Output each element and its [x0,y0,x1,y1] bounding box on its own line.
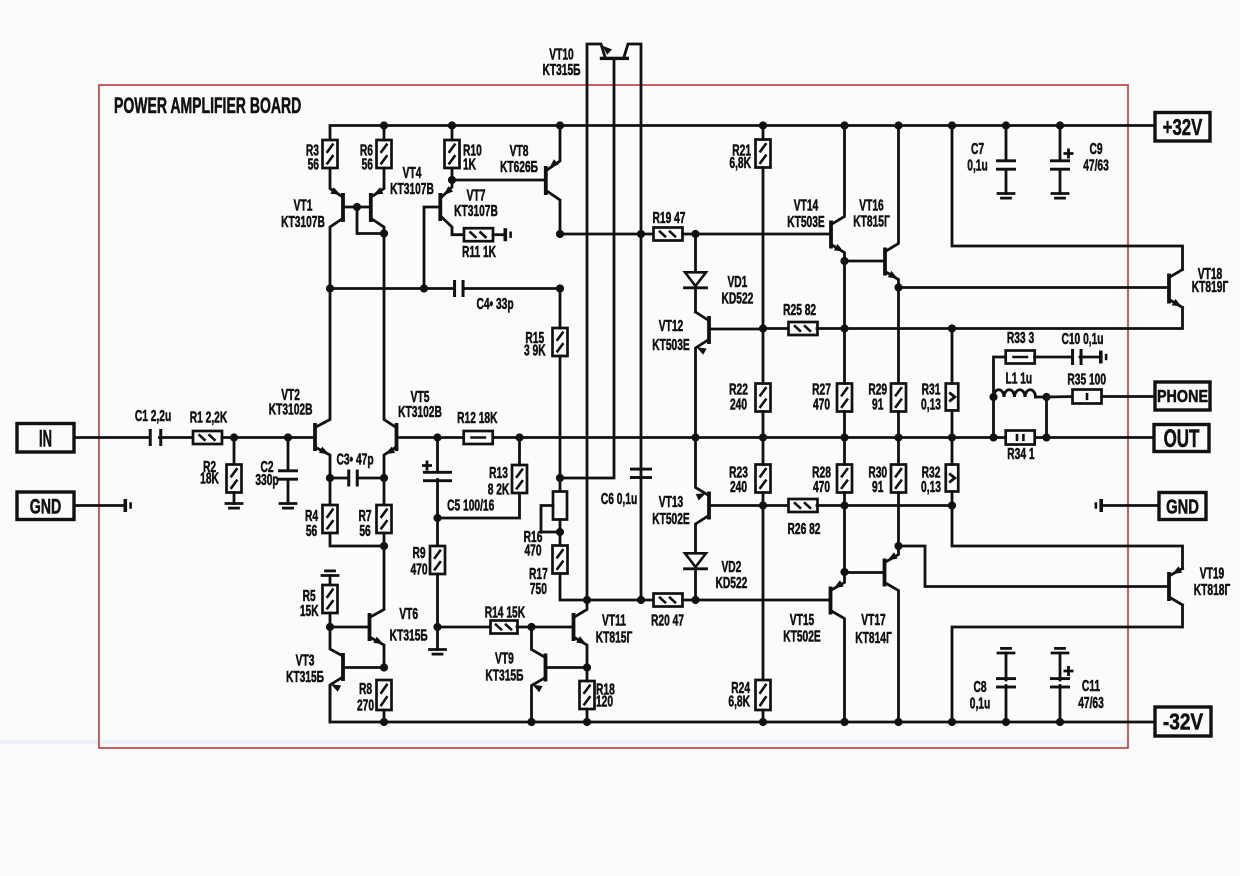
svg-text:0,13: 0,13 [921,478,941,496]
wire R23 leads [762,438,765,465]
node R10 bottom [448,176,456,184]
node VT16 emitter [894,283,902,291]
node R24 bottom [759,718,767,726]
node R18 bottom [583,718,591,726]
wire R28 leads [843,438,846,465]
wire VT14e to R25 [843,261,846,329]
wire R19 line to VT14 [696,233,830,236]
wire VT16e to R29 [897,288,900,385]
svg-text:120: 120 [596,693,613,711]
svg-text:KT3102B: KT3102B [269,400,313,418]
svg-text:VT13: VT13 [659,493,683,511]
svg-text:R9: R9 [412,544,425,562]
resistor R8 [377,680,392,710]
svg-text:R11 1K: R11 1K [462,243,497,261]
svg-text:KT503E: KT503E [652,336,690,354]
svg-text:R13: R13 [489,464,508,482]
wire VT19 base feed [899,546,1168,587]
svg-text:POWER AMPLIFIER BOARD: POWER AMPLIFIER BOARD [114,93,301,118]
node VT16 rail [894,121,902,129]
wire R16 bottom lead [559,520,562,546]
svg-text:330p: 330p [255,471,278,489]
node VD2 bottom [691,596,699,604]
node R32 bottom [948,501,956,509]
wire C8 leads [1005,686,1008,723]
node L1 right [1042,393,1050,401]
capacitor C10 [1071,349,1074,365]
svg-text:R8: R8 [359,680,372,698]
resistor R15 [553,328,568,356]
wire VT19 collector line [952,605,1183,722]
node C8 rail [1002,718,1010,726]
diode VD2 [685,553,706,567]
wire L1 to R35 [1036,395,1073,398]
node R8 top [380,663,388,671]
svg-text:91: 91 [872,395,883,413]
resistor R20 [654,594,683,607]
svg-text:KT626Б: KT626Б [500,158,538,176]
resistor R18 [580,681,595,709]
transistor VT8 [544,166,548,195]
diode VD1 [685,272,706,286]
wire VT18 collector feed [952,126,1183,270]
transistor VT16 [883,248,887,276]
svg-text:VT12: VT12 [659,317,683,335]
wire R33 left leg [994,357,1007,397]
ground stub left [124,499,128,512]
wire R5 to node [329,613,332,627]
transistor VT5 [395,423,399,451]
resistor R7 [383,478,386,505]
wire R18 leads [586,668,589,682]
stub after R11 [504,228,508,241]
svg-text:KT819Г: KT819Г [1192,278,1229,296]
node R31 out [948,433,956,441]
svg-text:VT3: VT3 [296,651,315,669]
svg-text:R26 82: R26 82 [788,520,821,538]
svg-text:KT814Г: KT814Г [855,629,892,647]
ground under R9 [430,648,446,651]
node C3 right [380,474,388,482]
wire VT16 base link [845,260,884,263]
terminal -32V [1155,707,1211,736]
svg-text:56: 56 [308,155,319,173]
wire C9 leads [1059,126,1062,161]
resistor R27 [837,384,852,412]
capacitor C3 [347,470,350,487]
svg-text:470: 470 [524,541,541,559]
wire IN lead [74,436,149,439]
svg-text:15K: 15K [300,602,319,620]
node VT6 base [326,623,334,631]
ground under C2 [280,502,296,505]
resistor R23 [756,465,771,493]
svg-text:KT502E: KT502E [652,510,690,528]
wire VT19 emitter line [952,506,1183,569]
resistor R17 [553,546,568,574]
svg-text:KT818Г: KT818Г [1194,581,1231,599]
resistor R35 [1073,390,1102,404]
node VT19 col rail [948,718,956,726]
node VT15 collector rail [840,718,848,726]
node VT15 emitter [840,568,848,576]
resistor R1 [193,431,222,444]
transistor VT7 [438,193,442,221]
svg-text:KT815Г: KT815Г [596,628,633,646]
svg-text:8 2K: 8 2K [488,480,510,498]
svg-text:470: 470 [813,395,830,413]
capacitor C4 [453,280,456,297]
node VT14 emitter [840,257,848,265]
svg-text:R12 18K: R12 18K [457,409,498,427]
node R31 top line [948,324,956,332]
wire R13 top lead [518,438,521,466]
wire R9 bottom [436,574,439,650]
stub after C10 [1099,351,1103,364]
resistor R4 [329,478,332,505]
wire R19 to VD1 [683,233,696,236]
svg-text:KT502E: KT502E [783,627,821,645]
svg-text:C4• 33p: C4• 33p [476,295,513,313]
svg-text:KT315Б: KT315Б [485,666,523,684]
wire VT15 base lead [827,599,830,602]
wire R22 leads [762,329,765,384]
node R16 wiper [556,528,564,536]
svg-text:470: 470 [410,560,427,578]
board outline (red border) [99,85,1128,748]
wire C7 leads [1005,126,1008,161]
wire R24 bottom [762,710,765,722]
wire R26 right [817,504,952,507]
svg-text:240: 240 [730,478,747,496]
resistor R22 [756,384,771,412]
svg-text:VT17: VT17 [861,611,885,629]
svg-text:3 9K: 3 9K [524,341,546,359]
svg-text:56: 56 [362,155,373,173]
node R34 left [989,433,997,441]
resistor R2 [227,465,242,493]
ground above R5 [322,574,338,577]
terminal GND right [1159,493,1206,520]
svg-text:R35 100: R35 100 [1067,370,1106,388]
node R26 junction [840,501,848,509]
wire +32V rail [330,126,1155,141]
node R22 out [759,433,767,441]
node VT9 emitter rail [527,718,535,726]
svg-text:R14 15K: R14 15K [485,603,526,621]
node C7 rail [1002,121,1010,129]
node VT11 collector top [583,596,591,604]
wire VT18 base line [899,286,1168,289]
node VT14 rail [840,121,848,129]
wire C5 top lead [436,438,439,472]
ground above C11 [1052,652,1068,655]
transistor VT17 [883,559,887,587]
svg-text:56: 56 [359,522,370,540]
svg-text:VD1: VD1 [727,273,747,291]
svg-text:VT15: VT15 [790,611,814,629]
wire VT8 base link [452,179,544,182]
svg-text:C6 0,1u: C6 0,1u [601,490,637,508]
svg-text:47/63: 47/63 [1083,156,1109,174]
wire C1 to R1 [159,436,193,439]
svg-text:VT4: VT4 [403,164,422,182]
resistor R9 [430,546,445,574]
svg-text:0,1u: 0,1u [967,156,987,174]
resistor R5 [323,585,338,613]
svg-text:+32V: +32V [1163,115,1203,140]
node R8 bottom [380,718,388,726]
wire base tie stub [357,207,384,234]
svg-text:18K: 18K [200,470,219,488]
svg-text:VT8: VT8 [510,142,529,160]
node C6 bottom [637,596,645,604]
svg-text:R20 47: R20 47 [651,611,684,629]
svg-text:VT19: VT19 [1200,564,1224,582]
svg-text:240: 240 [730,395,747,413]
transistor VT4 [369,193,373,222]
node VT10 collector tap [637,230,645,238]
svg-text:0,13: 0,13 [921,395,941,413]
wire R25 line [763,327,789,330]
svg-text:C8: C8 [973,678,986,696]
resistor R32 [946,465,959,492]
wire R29 leads [897,412,900,438]
wire C4 line right [465,287,561,290]
svg-text:-32V: -32V [1163,710,1203,735]
resistor R21 [756,140,771,168]
node R34 right [1042,433,1050,441]
wire R14 to VT11 [517,626,572,629]
terminal +32V [1155,113,1210,142]
node C4 right [556,284,564,292]
svg-text:R25 82: R25 82 [783,301,816,319]
node VT9 collector top [527,623,535,631]
svg-text:VT11: VT11 [602,611,626,629]
svg-text:VT9: VT9 [495,649,514,667]
resistor R29 [891,384,906,412]
wire VT15e to R26 [843,506,846,573]
node C5 bottom [433,514,441,522]
svg-text:VT14: VT14 [794,196,819,214]
svg-text:47/63: 47/63 [1078,694,1104,712]
svg-text:56: 56 [306,522,317,540]
node C11 rail [1056,718,1064,726]
resistor R24 [756,680,771,710]
wire R30 leads [897,438,900,465]
node R16 top [556,474,564,482]
node R19 line left [556,230,564,238]
svg-text:C10 0,1u: C10 0,1u [1061,330,1103,348]
resistor R34 [1006,431,1035,445]
node C2 top [284,433,292,441]
wire R10 bottom [451,168,454,180]
node VT8 emitter rail [556,121,564,129]
svg-text:KT3102B: KT3102B [398,403,442,421]
svg-text:C11: C11 [1082,677,1100,695]
resistor R25 [789,322,818,335]
wire VD1 to VT12 [694,290,697,312]
svg-text:R34 1: R34 1 [1007,445,1034,463]
wire VT17 base link [845,571,883,574]
node VT1 VT4 base tie [353,203,361,211]
svg-text:R19 47: R19 47 [653,209,686,227]
node R25 junction [840,324,848,332]
wire PHONE lead [1102,395,1155,398]
capacitor C5 [423,471,452,474]
wire R31 leads [951,329,954,384]
wire R14 line [438,626,492,629]
ground above C8 [998,652,1014,655]
wire OUT line [492,436,1154,439]
trimmer R16 [553,492,567,520]
wire L1 right to R35 line [1045,397,1048,438]
resistor R3 [323,140,338,168]
node R6 rail [380,121,388,129]
node R27 out [840,433,848,441]
resistor R28 [837,465,852,493]
wire VT6 base link [330,626,368,629]
wire R24 column [762,506,765,681]
transistor VT15 [829,587,833,615]
resistor R12 [464,431,493,444]
node R10 rail [448,121,456,129]
wire C10 stub lead [1080,356,1099,359]
node C9 rail [1056,121,1064,129]
wire R26 line left [711,504,789,507]
wire R1 to VT2 base [222,436,313,439]
node VT17 collector rail [894,718,902,726]
wire C3 leads [330,477,347,480]
transistor VT19 [1167,572,1171,601]
wire C2 leads [287,438,290,471]
node L1 left [989,393,997,401]
svg-text:C3• 47p: C3• 47p [336,450,373,468]
wire C11 leads [1059,686,1062,723]
svg-text:750: 750 [530,580,547,598]
svg-text:KT3107B: KT3107B [454,202,498,220]
node R12 right [515,433,523,441]
wire R15 bottom [559,356,562,492]
terminal OUT [1154,425,1209,452]
resistor R33 [1006,351,1035,364]
node C3 left [326,474,334,482]
svg-text:L1 1u: L1 1u [1005,370,1032,388]
wire R17 bottom [560,574,654,601]
capacitor C9 [1050,159,1070,162]
svg-text:KD522: KD522 [721,289,753,307]
wire VT3 collector [330,627,341,655]
svg-text:6,8K: 6,8K [728,693,750,711]
wire VT9 base link [547,666,587,669]
terminal IN [17,424,74,453]
capacitor C6 [630,468,652,471]
wire R33 to C10 [1035,356,1071,359]
svg-text:KT3107B: KT3107B [281,213,325,231]
svg-text:C7: C7 [971,140,984,158]
wire R11 stub lead [493,233,503,236]
wire GND left lead [74,504,123,507]
svg-text:KT315Б: KT315Б [286,668,324,686]
svg-text:C1 2,2u: C1 2,2u [135,407,171,425]
svg-text:KT3107B: KT3107B [390,180,434,198]
capacitor C11 [1050,677,1070,680]
node VT12 emitter out [691,433,699,441]
resistor R26 [789,499,818,512]
svg-text:PHONE: PHONE [1157,388,1208,407]
svg-text:OUT: OUT [1164,425,1200,453]
transistor VT9 [544,654,548,682]
terminal PHONE [1155,382,1210,410]
capacitor C2 [278,469,298,472]
resistor R19 [654,228,683,241]
wire VD2 to R20 line [694,571,697,600]
transistor VT10 [600,57,629,60]
wire R13 bottom line [438,493,520,518]
wire R25 right [817,327,952,330]
wire R2 lead [233,438,236,465]
inductor L1 [994,390,1036,397]
transistor VT3 [341,653,345,681]
wire R4 jog [330,533,384,546]
resistor R30 [891,465,906,493]
wire GND right lead [1103,504,1159,507]
svg-text:KT503E: KT503E [787,213,825,231]
ground under C7 [998,192,1014,195]
wire VD1 anode lead [694,234,697,271]
svg-text:91: 91 [872,478,883,496]
wire L1 left down [992,397,995,438]
ground under C9 [1052,192,1068,195]
capacitor C8 [996,677,1016,680]
wire -32V rail [330,686,1155,723]
node C5 top [433,433,441,441]
transistor VT11 [572,613,576,641]
node VD1 top [691,230,699,238]
node VT18 feed rail [948,121,956,129]
svg-text:6,8K: 6,8K [729,154,751,172]
transistor VT6 [368,613,372,641]
resistor R10 [445,140,460,168]
transistor VT18 [1167,274,1171,304]
node R21 rail [759,121,767,129]
node R7 bottom [380,542,388,550]
wire R27 leads [843,329,846,384]
transistor VT13 [707,492,711,520]
svg-text:1K: 1K [463,155,476,173]
wire VT5 base to R12 [398,436,464,439]
svg-text:C9: C9 [1089,140,1102,158]
node VT11 emitter [583,663,591,671]
resistor R14 [491,621,518,634]
svg-text:KD522: KD522 [715,574,747,592]
resistor R11 [464,228,493,241]
wire R15 top lead [559,289,562,329]
node R23 bottom [759,501,767,509]
transistor VT14 [829,221,833,249]
node VT17 emitter [894,542,902,550]
node VT4 collector [380,229,388,237]
resistor R6 [377,140,392,168]
wire C4 line left [330,287,453,290]
ground under R2 [226,502,242,505]
wire R2 to ground [233,493,236,504]
svg-text:0,1u: 0,1u [970,694,990,712]
svg-text:KT815Г: KT815Г [853,212,890,230]
wire C5 bottom lead [436,480,439,547]
capacitor C7 [996,159,1016,162]
transistor VT12 [707,316,711,344]
